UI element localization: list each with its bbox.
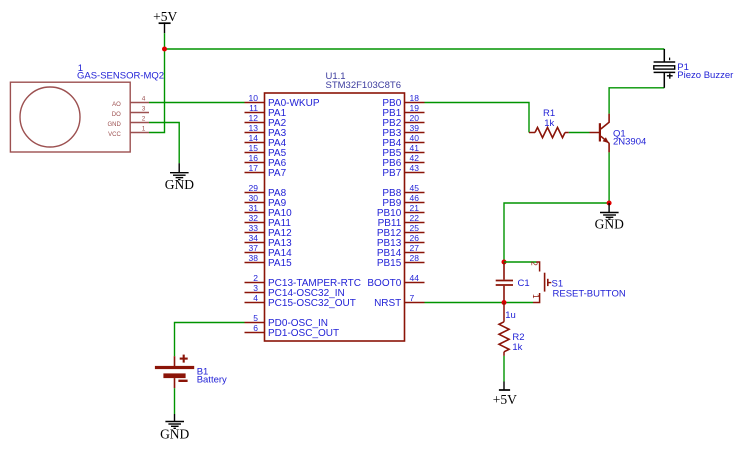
svg-text:4: 4	[253, 293, 258, 303]
wire sensor AO to U1 PA0	[149, 102, 245, 104]
U1 pin 13 PA3	[245, 123, 287, 139]
svg-text:28: 28	[410, 253, 420, 263]
U1 pin 44 BOOT0	[367, 273, 424, 289]
junction node at +5V rail	[162, 47, 167, 52]
junction node at Q1 emitter/ground	[607, 201, 612, 206]
U1 pin 37 PA14	[245, 243, 293, 259]
svg-text:Battery: Battery	[197, 374, 227, 385]
U1 pin 6 PD1-OSC_OUT	[245, 323, 340, 339]
svg-text:C1: C1	[518, 278, 530, 289]
svg-text:GND: GND	[160, 426, 189, 441]
svg-text:13: 13	[249, 123, 259, 133]
svg-text:+5V: +5V	[493, 392, 517, 407]
U1 pin 17 PA7	[245, 163, 287, 179]
U1 pin 41 PB5	[382, 143, 424, 159]
svg-text:PC15-OSC32_OUT: PC15-OSC32_OUT	[268, 298, 356, 309]
svg-text:PA7: PA7	[268, 168, 287, 179]
gas sensor pin 2 GND	[107, 116, 149, 128]
U1 pin 25 PB12	[377, 223, 425, 239]
U1 pin 3 PC14-OSC32_IN	[245, 283, 345, 299]
svg-text:BOOT0: BOOT0	[367, 278, 401, 289]
svg-text:1k: 1k	[544, 118, 554, 129]
svg-text:STM32F103C8T6: STM32F103C8T6	[326, 80, 402, 91]
U1 pin 30 PA9	[245, 193, 287, 209]
svg-text:3: 3	[142, 106, 146, 113]
svg-text:32: 32	[249, 213, 259, 223]
junction node at NRST	[502, 300, 507, 305]
svg-text:38: 38	[249, 253, 259, 263]
U1 pin 33 PA12	[245, 223, 293, 239]
U1 pin 31 PA10	[245, 203, 293, 219]
IC U1.1 STM32F103C8T6 body	[265, 93, 405, 341]
svg-text:29: 29	[249, 183, 259, 193]
svg-text:21: 21	[410, 203, 420, 213]
svg-text:34: 34	[249, 233, 259, 243]
svg-text:VCC: VCC	[108, 132, 121, 138]
gas sensor pin 4 AO	[112, 96, 149, 108]
svg-text:10: 10	[249, 93, 259, 103]
svg-text:PB15: PB15	[377, 258, 402, 269]
svg-text:PD1-OSC_OUT: PD1-OSC_OUT	[268, 328, 339, 339]
svg-text:33: 33	[249, 223, 259, 233]
U1 pin 45 PB8	[382, 183, 424, 199]
ground (battery)	[160, 414, 189, 441]
U1 pin 15 PA5	[245, 143, 287, 159]
capacitor C1	[496, 263, 513, 303]
U1 pin 7 NRST	[374, 293, 424, 309]
U1 pin 46 PB9	[382, 193, 424, 209]
U1 pin 40 PB4	[382, 133, 424, 149]
svg-text:41: 41	[410, 143, 420, 153]
U1 pin 32 PA11	[245, 213, 292, 229]
svg-text:+5V: +5V	[153, 9, 177, 24]
svg-text:2: 2	[142, 116, 146, 123]
battery B1	[155, 355, 194, 389]
wire +5V stem to junction	[164, 33, 166, 49]
svg-text:31: 31	[249, 203, 259, 213]
svg-text:27: 27	[410, 243, 420, 253]
svg-text:GND: GND	[595, 216, 624, 231]
svg-text:NRST: NRST	[374, 298, 401, 309]
U1 pin 10 PA0-WKUP	[245, 93, 320, 109]
U1 pin 20 PB2	[382, 113, 424, 129]
svg-text:4: 4	[142, 96, 146, 103]
U1 pin 43 PB7	[382, 163, 424, 179]
svg-text:40: 40	[410, 133, 420, 143]
svg-text:Piezo Buzzer: Piezo Buzzer	[677, 70, 733, 81]
U1 pin 42 PB6	[382, 153, 424, 169]
svg-text:1: 1	[142, 126, 146, 133]
wire U1 PD0 to battery	[175, 323, 245, 357]
svg-text:1k: 1k	[512, 342, 522, 353]
svg-text:PB7: PB7	[382, 168, 401, 179]
wire Q1 collector to buzzer	[609, 88, 664, 114]
svg-text:1u: 1u	[505, 310, 516, 321]
U1 pin 26 PB13	[377, 233, 425, 249]
resistor R2	[499, 303, 509, 356]
svg-text:43: 43	[410, 163, 420, 173]
wire junction to C1 branch	[504, 203, 609, 262]
wire +5V down to sensor VCC	[149, 49, 165, 133]
U1 pin 18 PB0	[382, 93, 424, 109]
wire battery to ground	[174, 388, 176, 414]
svg-text:5: 5	[253, 313, 258, 323]
ground (Q1 emitter)	[595, 203, 624, 231]
U1 pin 16 PA6	[245, 153, 287, 169]
svg-text:RESET-BUTTON: RESET-BUTTON	[553, 289, 626, 300]
svg-text:19: 19	[410, 103, 420, 113]
U1 pin 28 PB15	[377, 253, 425, 269]
power +5V (bottom)	[493, 382, 517, 408]
U1 pin 5 PD0-OSC_IN	[245, 313, 329, 329]
svg-text:25: 25	[410, 223, 420, 233]
svg-text:12: 12	[249, 113, 259, 123]
svg-text:44: 44	[410, 273, 420, 283]
gas sensor pin 3 DO	[112, 106, 149, 118]
wire sensor GND to ground	[149, 123, 179, 164]
svg-text:2: 2	[253, 273, 258, 283]
wire C1 top to S1	[504, 261, 537, 263]
svg-text:2N3904: 2N3904	[613, 136, 646, 147]
svg-text:17: 17	[249, 163, 259, 173]
svg-text:37: 37	[249, 243, 259, 253]
svg-text:22: 22	[410, 213, 420, 223]
U1 pin 22 PB11	[378, 213, 425, 229]
U1 pin 21 PB10	[377, 203, 425, 219]
svg-text:20: 20	[410, 113, 420, 123]
svg-text:DO: DO	[112, 112, 121, 118]
U1 pin 19 PB1	[382, 103, 424, 119]
U1 pin 12 PA2	[245, 113, 287, 129]
svg-text:46: 46	[410, 193, 420, 203]
svg-text:PA15: PA15	[268, 258, 292, 269]
wire R1 to Q1 base	[569, 132, 590, 134]
piezo buzzer P1	[654, 49, 676, 88]
svg-text:15: 15	[249, 143, 259, 153]
svg-text:14: 14	[249, 133, 259, 143]
svg-text:6: 6	[253, 323, 258, 333]
svg-text:GND: GND	[107, 122, 121, 128]
svg-text:30: 30	[249, 193, 259, 203]
svg-text:18: 18	[410, 93, 420, 103]
svg-text:GAS-SENSOR-MQ2: GAS-SENSOR-MQ2	[77, 71, 164, 82]
power +5V (top)	[153, 9, 177, 33]
wire top rail from junction to buzzer	[165, 48, 665, 50]
svg-text:AO: AO	[112, 102, 121, 108]
svg-text:39: 39	[410, 123, 420, 133]
svg-text:45: 45	[410, 183, 420, 193]
U1 pin 2 PC13-TAMPER-RTC	[245, 273, 361, 289]
svg-text:11: 11	[249, 103, 258, 113]
gas sensor module GAS-SENSOR-MQ2 body	[10, 82, 130, 152]
U1 pin 29 PA8	[245, 183, 287, 199]
svg-text:7: 7	[410, 293, 415, 303]
U1 pin 27 PB14	[377, 243, 425, 259]
svg-text:16: 16	[249, 153, 259, 163]
resistor R1	[529, 127, 569, 137]
U1 pin 4 PC15-OSC32_OUT	[245, 293, 356, 309]
U1 pin 38 PA15	[245, 253, 293, 269]
wire Q1 emitter to ground junction	[608, 152, 610, 203]
wire junction to S1 bottom	[504, 302, 533, 304]
U1 pin 14 PA4	[245, 133, 287, 149]
svg-text:1: 1	[531, 294, 540, 299]
wire R2 to +5V	[503, 356, 505, 382]
svg-text:26: 26	[410, 233, 420, 243]
ground (sensor)	[165, 163, 194, 192]
U1 pin 11 PA1	[245, 103, 287, 119]
U1 pin 34 PA13	[245, 233, 293, 249]
svg-text:GND: GND	[165, 177, 194, 192]
gas sensor pin 1 VCC	[108, 126, 149, 138]
junction node at C1 top	[502, 260, 507, 265]
U1 pin 39 PB3	[382, 123, 424, 139]
pushbutton S1	[530, 261, 552, 302]
wire U1 NRST to junction	[425, 302, 505, 304]
svg-text:3: 3	[253, 283, 258, 293]
transistor Q1 2N3904	[590, 114, 610, 153]
wire U1 PB0 to R1	[425, 103, 530, 133]
svg-text:2: 2	[530, 261, 539, 266]
svg-text:42: 42	[410, 153, 420, 163]
